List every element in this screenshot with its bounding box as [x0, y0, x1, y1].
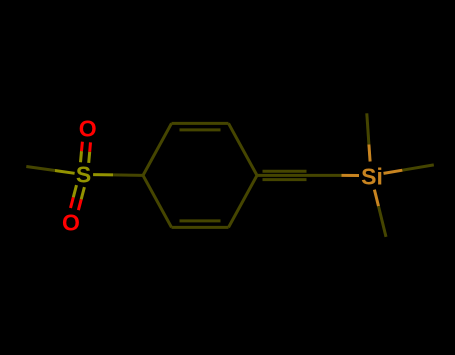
- svg-text:O: O: [62, 209, 80, 235]
- svg-text:Si: Si: [361, 164, 383, 190]
- svg-text:O: O: [79, 115, 97, 141]
- svg-text:S: S: [76, 162, 91, 188]
